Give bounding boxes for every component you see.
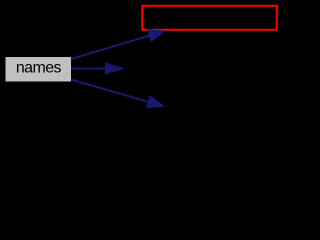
svg-text:names: names [16, 60, 62, 77]
